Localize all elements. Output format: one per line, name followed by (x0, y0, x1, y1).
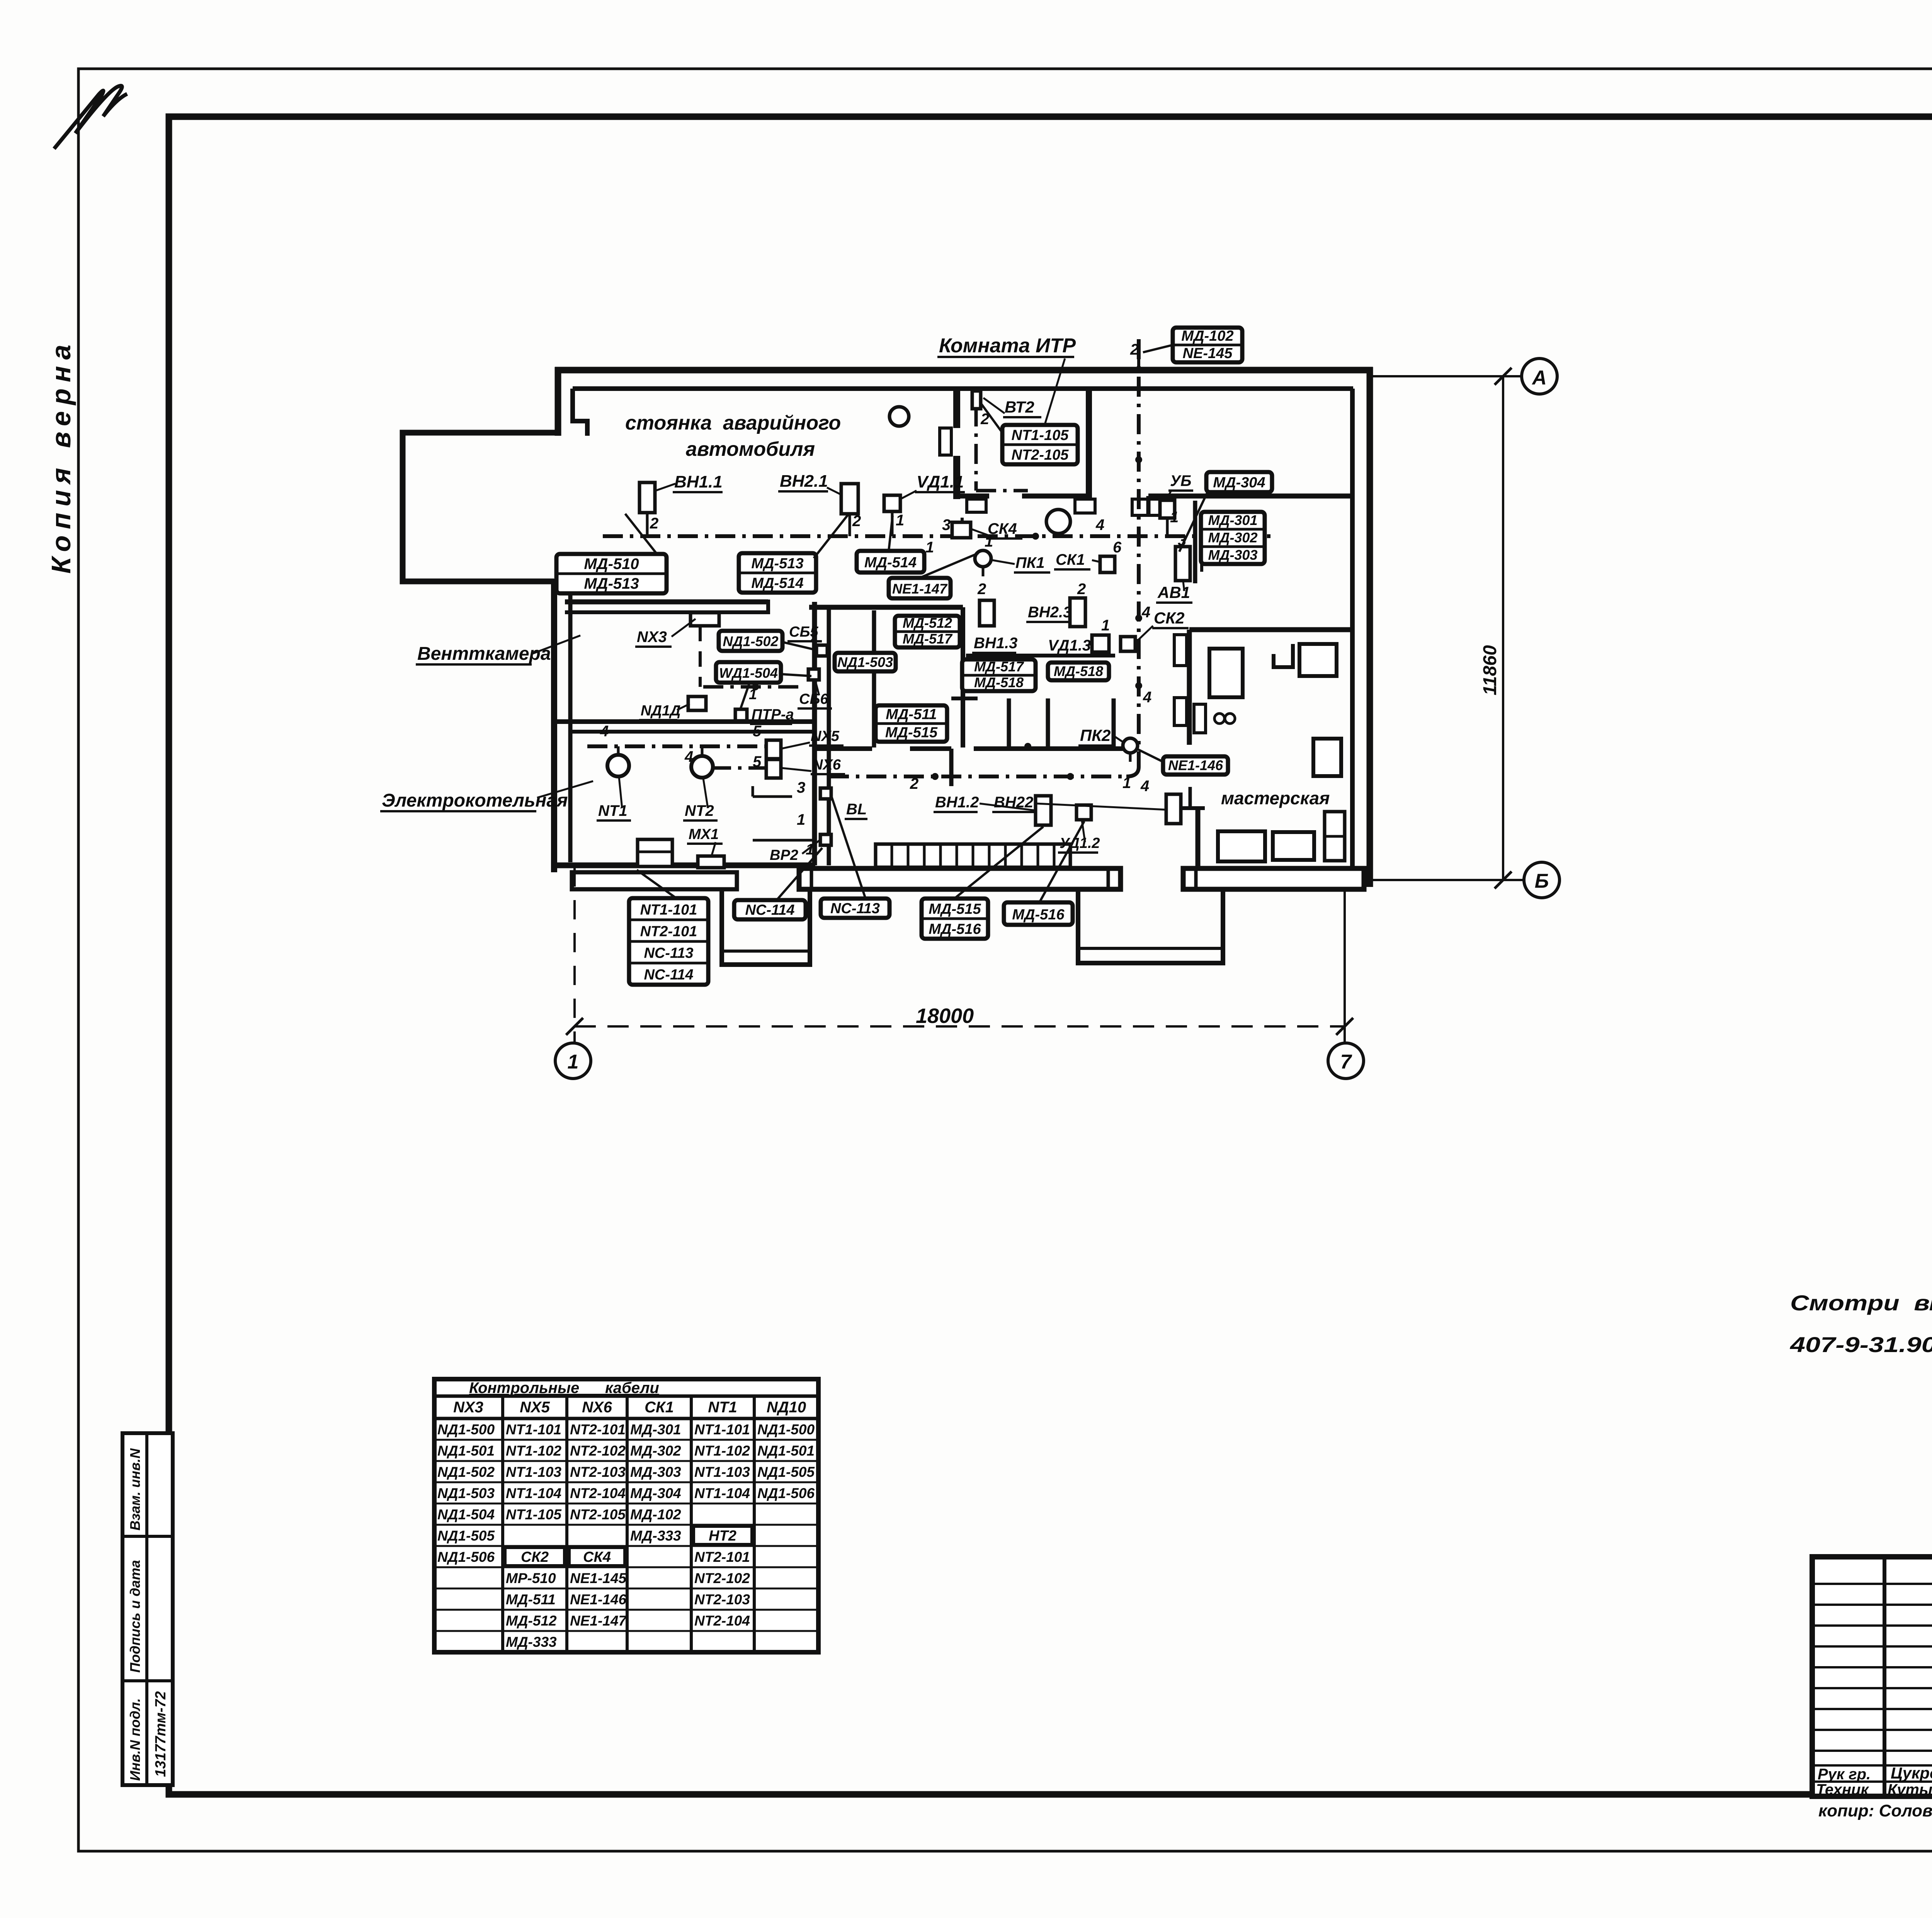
cable line axis 2 vertical (1137, 339, 1141, 767)
label НТ2 (683, 802, 718, 821)
svg-text:МД-302: МД-302 (630, 1443, 681, 1459)
svg-text:2: 2 (910, 775, 918, 792)
svg-text:NТ2-102: NТ2-102 (694, 1570, 750, 1586)
svg-text:Рук гр.: Рук гр. (1818, 1766, 1871, 1783)
partition stubs central stalls (1007, 698, 1011, 747)
svg-text:МД-102: МД-102 (630, 1507, 681, 1522)
svg-text:4: 4 (1095, 516, 1104, 533)
svg-text:1: 1 (568, 1051, 579, 1073)
svg-text:NД1-503: NД1-503 (837, 654, 893, 670)
svg-text:2: 2 (1077, 581, 1086, 598)
wall мастерская left lower (1196, 808, 1201, 869)
wall: building top outer (555, 367, 1373, 374)
label box МД-518 (1048, 663, 1109, 680)
svg-text:МД-102: МД-102 (1181, 328, 1233, 344)
svg-text:1: 1 (1122, 775, 1131, 792)
axis line to А (1373, 375, 1520, 377)
porch slab left (572, 872, 737, 889)
leader ПК2 l (1114, 736, 1124, 742)
device НТ2 pump (691, 756, 713, 778)
svg-text:МД-302: МД-302 (1208, 530, 1257, 545)
svg-text:NЕ1-146: NЕ1-146 (570, 1592, 626, 1607)
wall V2 central double (812, 602, 817, 865)
svg-text:ВР2: ВР2 (770, 847, 798, 863)
svg-text:ВН2.1: ВН2.1 (780, 472, 828, 491)
bottom slab central (799, 868, 1121, 889)
label room Вентткамера (416, 644, 551, 664)
device ВР2 switch (820, 834, 831, 845)
leader МД-510 box (625, 514, 657, 554)
leader НД1-502 box (782, 642, 815, 650)
svg-text:СК4: СК4 (583, 1549, 611, 1565)
svg-text:NТ1-105: NТ1-105 (506, 1507, 562, 1522)
wall: left below protrusion outer (551, 579, 557, 872)
wall H2 вентткамера bottom double (554, 719, 815, 724)
svg-text:NД1-506: NД1-506 (757, 1485, 815, 1501)
svg-text:НТ2: НТ2 (709, 1528, 736, 1544)
device ВН2.1 (841, 484, 858, 514)
label СБ6 (798, 691, 832, 708)
svg-text:NТ1-101: NТ1-101 (506, 1422, 561, 1437)
cable line lower horizontal (829, 775, 1122, 778)
svg-text:NД1-501: NД1-501 (437, 1443, 495, 1459)
svg-text:МД-512: МД-512 (506, 1613, 557, 1629)
shelf right of ИТР door (1132, 499, 1166, 515)
svg-text:МД-511: МД-511 (506, 1592, 556, 1607)
cable table Контрольные кабели (434, 1379, 818, 1652)
svg-text:СК1: СК1 (645, 1399, 674, 1416)
device НД10 (688, 697, 706, 710)
wall: right inner (1350, 389, 1355, 869)
label ВН1.1 (673, 472, 723, 492)
label НХ6 (811, 757, 845, 774)
svg-text:2: 2 (852, 513, 861, 530)
svg-text:МД-512: МД-512 (903, 615, 952, 631)
wall: building top inner (573, 386, 1353, 391)
leader Вентткамера arrow (532, 635, 580, 654)
leader УД1.1 l (900, 491, 917, 499)
label box МД-510/МД-513 (556, 554, 667, 593)
svg-text:МД-515: МД-515 (885, 725, 938, 741)
label УД1.2 (1058, 835, 1100, 853)
label box НД1-502 (719, 631, 782, 651)
wall мастерская left upper (1187, 630, 1192, 745)
label ВН2.2 (992, 794, 1034, 812)
svg-text:АВ1: АВ1 (1157, 583, 1190, 601)
label box МД-514 (857, 551, 924, 573)
leader НЕ1-146 box (1138, 749, 1163, 762)
label НТ1 (597, 802, 631, 821)
device ПТР-а (735, 709, 747, 721)
junction dots on cable lines (1032, 533, 1039, 540)
leader УД1.3 l (1088, 644, 1093, 645)
label ПТР-а (750, 707, 794, 724)
svg-text:NД1-500: NД1-500 (757, 1422, 815, 1437)
leader МД-304 box (1179, 492, 1207, 552)
leader СК2 l (1137, 626, 1153, 641)
leader МХ1 l (712, 842, 716, 855)
axis 2 tail above wall (1137, 339, 1140, 370)
svg-text:СБ5: СБ5 (789, 624, 818, 640)
svg-text:NТ2: NТ2 (685, 802, 714, 819)
leader СК1 l (1092, 560, 1100, 562)
axis 1 vertical dashed (573, 867, 576, 1043)
svg-text:Копия верна: Копия верна (46, 338, 76, 574)
tick marks 18000 (566, 1018, 583, 1035)
wall: left top outer (555, 367, 561, 436)
bottom slab right (мастерская) (1183, 868, 1364, 889)
leader НХ6 l (781, 768, 811, 771)
device ВН1.1 (639, 482, 655, 513)
svg-text:Взам. инв.N: Взам. инв.N (127, 1448, 143, 1531)
svg-text:NТ2-103: NТ2-103 (694, 1592, 750, 1607)
device ПК2 pump circle (1123, 738, 1138, 753)
svg-text:2: 2 (977, 581, 986, 598)
device НХ6 box (766, 759, 781, 778)
svg-text:NД1Д: NД1Д (641, 703, 680, 719)
device УБ (1160, 500, 1175, 518)
leader НД1-504 box (740, 683, 750, 709)
svg-text:ПТР-а: ПТР-а (752, 707, 794, 723)
label НХ5 (809, 728, 844, 746)
svg-text:МД-333: МД-333 (630, 1528, 681, 1544)
label ПК2 (1078, 726, 1115, 746)
label ВЛ (845, 801, 867, 819)
svg-text:NТ2-103: NТ2-103 (570, 1464, 626, 1480)
leader ВТ2 l (983, 398, 1005, 413)
svg-text:VД1.3: VД1.3 (1048, 637, 1091, 654)
svg-text:1: 1 (1170, 509, 1179, 526)
stem УД1.1 (891, 511, 894, 536)
svg-text:1: 1 (797, 811, 805, 828)
svg-text:УБ: УБ (1170, 472, 1191, 489)
svg-text:13177тм-72: 13177тм-72 (153, 1691, 169, 1777)
svg-text:МД-513: МД-513 (584, 575, 639, 592)
svg-text:WД1-504: WД1-504 (719, 665, 778, 681)
svg-text:NД1-506: NД1-506 (437, 1549, 495, 1565)
wall: left below protrusion inner (568, 581, 573, 862)
device ВН1.3 device (980, 600, 994, 626)
svg-text:ВН22: ВН22 (994, 794, 1033, 811)
leader УБ l (1166, 490, 1172, 500)
svg-text:NД1-505: NД1-505 (437, 1528, 495, 1544)
svg-text:NТ2-101: NТ2-101 (640, 924, 697, 940)
wall corridor right stub (872, 610, 876, 747)
leader ВН1.2 l (980, 804, 1036, 810)
leader ВН1.1 l (656, 484, 675, 491)
leader НС-113 box (832, 797, 866, 899)
leader МД-514 box (889, 516, 893, 551)
svg-text:МД-511: МД-511 (886, 707, 937, 723)
svg-text:NТ2-105: NТ2-105 (1012, 447, 1069, 463)
axis circle 7 (1328, 1043, 1364, 1079)
svg-text:11860: 11860 (1480, 645, 1500, 695)
device НТ1 pump (607, 755, 629, 776)
stem ВН2.1 (849, 514, 851, 536)
label ВТ2 (1003, 398, 1041, 417)
svg-text:копир: Соловьева: копир: Соловьева (1818, 1801, 1932, 1820)
leader НТ2 l (703, 778, 708, 808)
leader НТ1 l (619, 777, 622, 808)
svg-text:NД1-502: NД1-502 (437, 1464, 495, 1480)
svg-text:ПК1: ПК1 (1015, 554, 1045, 571)
wall bottom of stalls y=1938 (815, 746, 872, 751)
wall stub below stalls (949, 749, 954, 786)
svg-text:СБ6: СБ6 (799, 691, 828, 707)
device ВТ2 (972, 391, 981, 409)
svg-text:NТ1-105: NТ1-105 (1012, 427, 1069, 443)
svg-text:NТ2-101: NТ2-101 (570, 1422, 626, 1437)
svg-text:МД-518: МД-518 (1054, 663, 1103, 679)
svg-text:NД1-500: NД1-500 (437, 1422, 495, 1437)
label УБ (1168, 472, 1193, 491)
svg-text:NД1-502: NД1-502 (723, 634, 778, 649)
wall H1 right part to central rooms (809, 605, 963, 610)
svg-text:1: 1 (925, 539, 934, 556)
svg-text:2: 2 (1130, 341, 1139, 358)
wall мастерская top (1189, 627, 1353, 632)
porch central-left U (722, 889, 810, 965)
porch central-right U (1078, 889, 1223, 963)
leader МД-513 box (814, 515, 848, 558)
leader НД10 l (677, 704, 690, 710)
svg-text:СК2: СК2 (1154, 609, 1185, 627)
device СК1 (1100, 556, 1115, 573)
label СК2 (1152, 609, 1189, 628)
device АВ1 (1175, 547, 1190, 581)
leader ПК1 l (992, 560, 1015, 564)
label СБ5 (787, 624, 822, 641)
svg-text:Цукрова: Цукрова (1891, 1764, 1932, 1782)
svg-text:МД-516: МД-516 (1012, 907, 1065, 923)
svg-text:СК2: СК2 (521, 1549, 549, 1565)
label box МД-102/НЕ-145 (1173, 328, 1242, 362)
svg-text:NТ1: NТ1 (708, 1399, 737, 1416)
svg-text:NД1-505: NД1-505 (757, 1464, 815, 1480)
cable line электрокотельная 2 (711, 766, 766, 770)
radiator band (ribbed) (876, 844, 1070, 867)
cable line ИТР vertical (975, 406, 978, 491)
leader НХ3 l (672, 619, 696, 637)
inner thick frame (169, 117, 1932, 1794)
label box НД1-503 (835, 653, 896, 671)
furniture мастерская (1174, 635, 1345, 861)
svg-text:Техник: Техник (1816, 1781, 1869, 1798)
title block left table verticals (1883, 1557, 1886, 1796)
svg-text:NЕ1-146: NЕ1-146 (1168, 758, 1223, 773)
label НД10 (639, 703, 680, 720)
leader МД-515 box (954, 827, 1043, 899)
svg-text:VД1.1: VД1.1 (917, 472, 964, 491)
axis 7 vertical (1344, 888, 1346, 1043)
label ВР2 (768, 847, 803, 865)
svg-text:МД-301: МД-301 (1208, 512, 1257, 528)
title block left table rows (1812, 1583, 1932, 1585)
svg-text:5: 5 (753, 753, 762, 770)
wall: ИТР bottom with door gap (954, 494, 989, 499)
leader НС-114 box (777, 848, 822, 900)
wall: ИТР room left (953, 389, 960, 428)
svg-text:МД-510: МД-510 (584, 556, 639, 573)
cable line ИТР bottom jog (976, 489, 1028, 493)
title block frame (1812, 1557, 1932, 1796)
label box МД-517/МД-518 (962, 659, 1036, 691)
sink circle (1046, 510, 1070, 533)
label box МД-515/МД-516 (922, 899, 988, 939)
svg-text:ПК2: ПК2 (1080, 726, 1111, 744)
tick marks dimension vertical (1495, 368, 1512, 385)
svg-text:МД-333: МД-333 (506, 1634, 557, 1650)
svg-text:Электрокотельная: Электрокотельная (382, 790, 568, 811)
cable line вентткамера vertical (699, 626, 702, 687)
wall central rooms top line (966, 654, 1115, 657)
label ПК1 (1014, 554, 1050, 573)
device НХ3 (690, 613, 719, 626)
svg-text:ВН2.3: ВН2.3 (1028, 604, 1071, 621)
leader НЕ1-147 box (920, 553, 978, 578)
svg-text:МР-510: МР-510 (506, 1570, 556, 1586)
svg-text:А: А (1531, 367, 1547, 389)
device ВЛ switch 1 (820, 788, 831, 799)
leader НТ1-101 box (637, 870, 676, 898)
svg-text:NТ1-103: NТ1-103 (506, 1464, 561, 1480)
svg-text:NХ3: NХ3 (637, 629, 667, 646)
cable stub СК4 down (961, 518, 964, 539)
wall: right outer (1367, 367, 1373, 887)
svg-text:NТ2-101: NТ2-101 (694, 1549, 750, 1565)
svg-text:МД-515: МД-515 (929, 901, 981, 917)
column circle parking (889, 407, 909, 426)
label room Электрокотельная (380, 790, 568, 811)
svg-text:NТ1-101: NТ1-101 (640, 902, 697, 918)
label ВН2.1 (778, 472, 828, 491)
svg-text:3: 3 (942, 516, 951, 533)
svg-text:4: 4 (684, 748, 693, 765)
axis circle Б (1524, 862, 1560, 898)
cable line электрокотельная (587, 744, 766, 748)
svg-text:Кутыркина: Кутыркина (1888, 1781, 1932, 1798)
label СК4 (986, 520, 1022, 539)
label box НЕ1-146 (1163, 756, 1228, 775)
label box НЕ1-147 (889, 578, 951, 598)
wall: bottom left segment (554, 863, 815, 868)
svg-text:NТ2-104: NТ2-104 (570, 1485, 626, 1501)
device НХ5 box (766, 740, 781, 759)
device УД1.1 (884, 495, 900, 511)
svg-text:NТ1-102: NТ1-102 (694, 1443, 750, 1459)
label box НД1-504 (716, 662, 781, 683)
leader МД-516 box (1039, 821, 1084, 902)
label ВН2.3 (1026, 604, 1071, 622)
svg-text:NТ1-102: NТ1-102 (506, 1443, 561, 1459)
svg-text:NЕ-145: NЕ-145 (1183, 345, 1233, 362)
svg-text:ВН1.1: ВН1.1 (674, 472, 723, 491)
svg-text:NД1-503: NД1-503 (437, 1485, 495, 1501)
svg-text:Вентткамера: Вентткамера (417, 644, 551, 664)
svg-text:УД1.2: УД1.2 (1060, 835, 1100, 851)
svg-text:Комната ИТР: Комната ИТР (939, 335, 1076, 357)
wall: left top inner with notch (573, 389, 587, 436)
dimension line 18000 (575, 1025, 1345, 1028)
label box МД-304 (1206, 472, 1272, 492)
device ВН2.2 (1166, 794, 1181, 824)
svg-text:NТ1-104: NТ1-104 (694, 1485, 750, 1501)
svg-text:мастерская: мастерская (1221, 788, 1330, 808)
device ПК1 pump circle (975, 550, 991, 567)
label ВН1.2 (934, 794, 979, 812)
device УД1.2 (1077, 805, 1091, 820)
label box МД-301/302/303 (1201, 512, 1265, 564)
wall: protrusion (garage bay) (403, 433, 561, 581)
leader ВН2.2 l (1036, 804, 1166, 810)
svg-text:NХ3: NХ3 (453, 1399, 483, 1416)
svg-text:МХ1: МХ1 (689, 826, 719, 843)
device ВН1.2 (1036, 796, 1051, 825)
device СБ6 (808, 669, 819, 680)
svg-text:Контрольные кабели: Контрольные кабели (469, 1379, 659, 1396)
svg-text:МД-301: МД-301 (630, 1422, 681, 1437)
leader НХ5 l (781, 742, 810, 749)
partition horizontal y=1808 (951, 697, 978, 700)
label box МД-512/МД-517 (895, 615, 960, 647)
svg-text:МД-513: МД-513 (751, 556, 803, 572)
svg-text:4: 4 (1140, 778, 1149, 795)
door sill ИТР (967, 499, 986, 512)
svg-text:МД-304: МД-304 (1213, 475, 1265, 491)
svg-text:NС-114: NС-114 (745, 902, 794, 918)
label room Комната ИТР (937, 335, 1076, 357)
svg-text:NС-114: NС-114 (644, 967, 693, 983)
svg-text:1: 1 (985, 533, 993, 550)
device СБ5 (816, 645, 827, 656)
axis circle 1 (555, 1043, 591, 1079)
svg-text:ВТ2: ВТ2 (1005, 398, 1034, 416)
svg-text:1: 1 (896, 512, 904, 529)
svg-text:NС-113: NС-113 (830, 900, 880, 917)
svg-text:6: 6 (1113, 539, 1122, 556)
label УД1.1 (915, 472, 965, 492)
stem ВН1.1 (646, 513, 649, 536)
svg-text:3: 3 (797, 779, 805, 796)
device СК4 (952, 522, 971, 538)
svg-text:NС-113: NС-113 (644, 945, 693, 962)
wall H1 parking/вентткамера double left part (565, 600, 768, 605)
svg-text:МД-303: МД-303 (630, 1464, 681, 1480)
svg-text:NЕ1-145: NЕ1-145 (570, 1570, 627, 1586)
stem УБ (1166, 518, 1169, 536)
svg-text:NТ1-104: NТ1-104 (506, 1485, 561, 1501)
svg-text:ВН1.2: ВН1.2 (935, 794, 979, 811)
label box НС-113 (821, 899, 889, 918)
cable line вентткамера horizontal (703, 685, 804, 689)
radiator stub right room (1193, 501, 1197, 583)
svg-text:NД1-504: NД1-504 (437, 1507, 495, 1522)
svg-text:МД-517: МД-517 (974, 659, 1024, 674)
label box МД-511/МД-515 (876, 705, 947, 742)
leader СБ6 l (815, 681, 819, 695)
svg-text:Подпись и дата: Подпись и дата (127, 1560, 143, 1673)
margin signature squiggle (54, 86, 127, 149)
svg-text:18000: 18000 (916, 1004, 974, 1028)
svg-text:407-9-31.90 ЭП л. 6÷9.: 407-9-31.90 ЭП л. 6÷9. (1790, 1332, 1932, 1357)
dimension vertical 11860 (1502, 376, 1504, 880)
leader НТ1-105 box (981, 404, 1002, 433)
leader СБ5 l (811, 639, 818, 647)
leader Комната ИТР arrow (1041, 358, 1065, 436)
svg-text:NТ1: NТ1 (598, 802, 628, 819)
svg-text:Смотри вместе с журналом: Смотри вместе с журналом контрольных каб… (1790, 1291, 1932, 1315)
label box НТ1-105/НТ2-105 (1002, 425, 1078, 464)
